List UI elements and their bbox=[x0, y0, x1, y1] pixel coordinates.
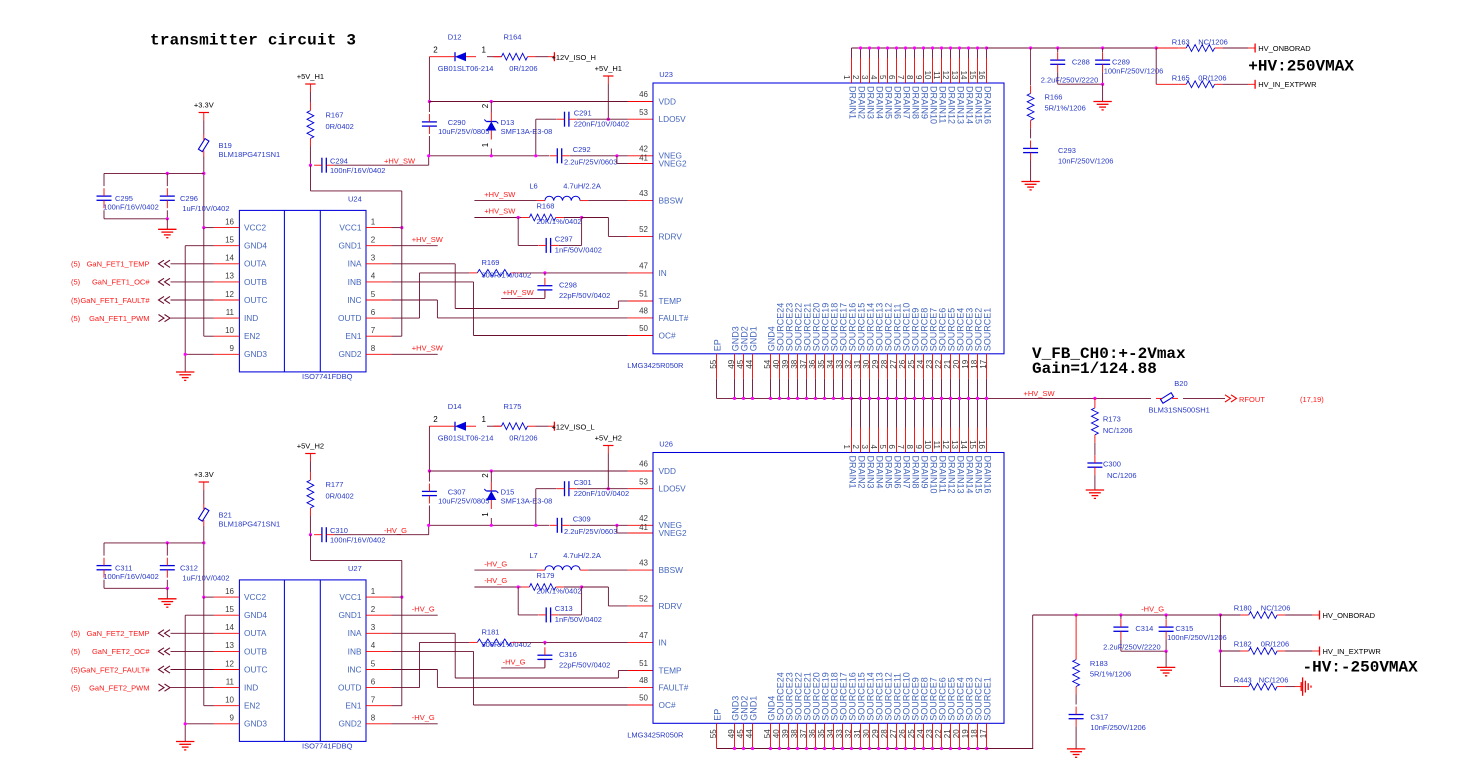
svg-text:0R/1206: 0R/1206 bbox=[509, 434, 537, 443]
svg-text:ISO7741FDBQ: ISO7741FDBQ bbox=[302, 742, 353, 751]
svg-text:SOURCE1: SOURCE1 bbox=[983, 308, 993, 352]
svg-text:2: 2 bbox=[433, 45, 438, 54]
svg-text:C293: C293 bbox=[1058, 146, 1076, 155]
svg-text:15: 15 bbox=[225, 605, 234, 614]
svg-text:5: 5 bbox=[371, 290, 376, 299]
svg-text:R166: R166 bbox=[1045, 93, 1063, 102]
svg-text:0R/1206: 0R/1206 bbox=[1198, 74, 1226, 83]
svg-text:DRAIN11: DRAIN11 bbox=[938, 86, 948, 123]
svg-text:100nF/16V/0402: 100nF/16V/0402 bbox=[330, 535, 385, 544]
svg-text:IN: IN bbox=[659, 637, 667, 647]
svg-text:DRAIN2: DRAIN2 bbox=[857, 456, 867, 489]
svg-text:C288: C288 bbox=[1072, 58, 1090, 67]
svg-text:+HV_SW: +HV_SW bbox=[412, 344, 444, 353]
svg-text:12: 12 bbox=[225, 290, 234, 299]
svg-text:R182: R182 bbox=[1234, 640, 1252, 649]
svg-text:VCC1: VCC1 bbox=[339, 223, 362, 233]
svg-text:5: 5 bbox=[878, 445, 887, 450]
svg-text:C298: C298 bbox=[559, 280, 577, 289]
svg-text:1: 1 bbox=[842, 445, 851, 450]
svg-text:GaN_FET2_TEMP: GaN_FET2_TEMP bbox=[87, 629, 150, 638]
svg-text:DRAIN5: DRAIN5 bbox=[884, 456, 894, 489]
svg-text:VNEG2: VNEG2 bbox=[659, 528, 688, 538]
svg-text:46: 46 bbox=[639, 90, 648, 99]
svg-text:GaN_FET2_FAULT#: GaN_FET2_FAULT# bbox=[80, 665, 150, 674]
svg-text:C292: C292 bbox=[573, 145, 591, 154]
svg-text:1: 1 bbox=[481, 512, 490, 517]
svg-text:+5V_H2: +5V_H2 bbox=[595, 434, 622, 443]
svg-text:DRAIN9: DRAIN9 bbox=[920, 456, 930, 489]
svg-text:42: 42 bbox=[639, 514, 648, 523]
svg-text:EN2: EN2 bbox=[244, 331, 261, 341]
svg-text:R167: R167 bbox=[326, 111, 344, 120]
svg-text:VCC2: VCC2 bbox=[244, 223, 267, 233]
svg-text:D14: D14 bbox=[448, 402, 462, 411]
svg-text:0R/0402: 0R/0402 bbox=[326, 122, 354, 131]
svg-text:50: 50 bbox=[639, 324, 648, 333]
svg-text:GaN_FET2_OC#: GaN_FET2_OC# bbox=[92, 647, 150, 656]
svg-text:D13: D13 bbox=[501, 118, 515, 127]
svg-text:1: 1 bbox=[371, 587, 376, 596]
svg-text:VDD: VDD bbox=[659, 96, 677, 106]
svg-text:7: 7 bbox=[896, 75, 905, 80]
svg-text:DRAIN12: DRAIN12 bbox=[947, 456, 957, 494]
svg-text:GND2: GND2 bbox=[338, 719, 361, 729]
svg-text:GND2: GND2 bbox=[338, 349, 361, 359]
svg-text:C300: C300 bbox=[1103, 460, 1121, 469]
svg-text:16: 16 bbox=[225, 217, 234, 226]
svg-text:14: 14 bbox=[225, 254, 234, 263]
svg-text:+HV_SW: +HV_SW bbox=[503, 288, 535, 297]
svg-text:GB01SLT06-214: GB01SLT06-214 bbox=[438, 64, 494, 73]
svg-text:BBSW: BBSW bbox=[659, 196, 684, 206]
svg-text:DRAIN1: DRAIN1 bbox=[848, 456, 858, 489]
svg-text:12: 12 bbox=[941, 440, 950, 449]
svg-text:10uF/25V/0805: 10uF/25V/0805 bbox=[438, 496, 489, 505]
svg-text:4: 4 bbox=[869, 75, 878, 80]
svg-text:DRAIN10: DRAIN10 bbox=[929, 86, 939, 124]
svg-text:R165: R165 bbox=[1172, 74, 1190, 83]
svg-text:7: 7 bbox=[371, 696, 376, 705]
svg-text:100nF/250V/1206: 100nF/250V/1206 bbox=[1104, 67, 1164, 76]
svg-text:R183: R183 bbox=[1090, 659, 1108, 668]
svg-text:DRAIN13: DRAIN13 bbox=[956, 456, 966, 494]
svg-text:2: 2 bbox=[481, 103, 490, 108]
svg-text:100nF/16V/0402: 100nF/16V/0402 bbox=[103, 203, 158, 212]
svg-text:GaN_FET1_OC#: GaN_FET1_OC# bbox=[92, 278, 150, 287]
svg-text:10nF/250V/1206: 10nF/250V/1206 bbox=[1058, 157, 1113, 166]
svg-text:C290: C290 bbox=[448, 118, 466, 127]
svg-text:9: 9 bbox=[914, 75, 923, 80]
svg-text:(5): (5) bbox=[71, 683, 81, 692]
svg-text:2: 2 bbox=[851, 75, 860, 80]
svg-text:C289: C289 bbox=[1112, 58, 1130, 67]
svg-text:16: 16 bbox=[977, 71, 986, 80]
svg-text:(5): (5) bbox=[71, 629, 81, 638]
svg-text:EN1: EN1 bbox=[345, 701, 362, 711]
svg-text:10: 10 bbox=[225, 696, 234, 705]
svg-text:INB: INB bbox=[348, 646, 362, 656]
svg-text:13: 13 bbox=[225, 641, 234, 650]
svg-text:BBSW: BBSW bbox=[659, 565, 684, 575]
svg-text:GaN_FET1_TEMP: GaN_FET1_TEMP bbox=[87, 260, 150, 269]
svg-text:2.2uF/250V/2220: 2.2uF/250V/2220 bbox=[1103, 642, 1161, 651]
svg-text:SMF13A-E3-08: SMF13A-E3-08 bbox=[501, 496, 553, 505]
svg-text:12: 12 bbox=[225, 659, 234, 668]
svg-text:+HV_SW: +HV_SW bbox=[484, 207, 516, 216]
svg-text:GND1: GND1 bbox=[749, 326, 759, 351]
svg-text:RDRV: RDRV bbox=[659, 231, 683, 241]
svg-text:11: 11 bbox=[226, 677, 235, 686]
svg-text:OUTC: OUTC bbox=[244, 295, 268, 305]
svg-text:EN1: EN1 bbox=[345, 331, 362, 341]
svg-text:DRAIN16: DRAIN16 bbox=[983, 456, 993, 494]
svg-text:INC: INC bbox=[347, 295, 361, 305]
svg-text:1: 1 bbox=[371, 217, 376, 226]
svg-text:GND1: GND1 bbox=[338, 610, 361, 620]
svg-text:C301: C301 bbox=[574, 478, 592, 487]
svg-text:NC/1206: NC/1206 bbox=[1261, 604, 1291, 613]
svg-text:EP: EP bbox=[713, 709, 723, 721]
svg-text:47: 47 bbox=[639, 631, 648, 640]
svg-text:1uF/10V/0402: 1uF/10V/0402 bbox=[182, 574, 229, 583]
svg-text:41: 41 bbox=[639, 523, 648, 532]
svg-text:DRAIN8: DRAIN8 bbox=[911, 86, 921, 119]
svg-text:+HV_SW: +HV_SW bbox=[484, 190, 516, 199]
svg-text:3: 3 bbox=[860, 75, 869, 80]
svg-text:VCC1: VCC1 bbox=[339, 592, 362, 602]
svg-text:L7: L7 bbox=[529, 551, 537, 560]
svg-text:1nF/50V/0402: 1nF/50V/0402 bbox=[555, 615, 602, 624]
svg-text:C309: C309 bbox=[573, 514, 591, 523]
svg-text:100nF/250V/1206: 100nF/250V/1206 bbox=[1167, 633, 1227, 642]
svg-text:2.2uF/250V/2220: 2.2uF/250V/2220 bbox=[1041, 76, 1099, 85]
svg-text:B21: B21 bbox=[219, 510, 232, 519]
svg-text:C307: C307 bbox=[448, 488, 466, 497]
svg-text:6: 6 bbox=[887, 445, 896, 450]
svg-text:0R/1206: 0R/1206 bbox=[1261, 640, 1289, 649]
svg-text:NC/1206: NC/1206 bbox=[1259, 675, 1289, 684]
svg-text:1nF/50V/0402: 1nF/50V/0402 bbox=[555, 245, 602, 254]
svg-text:DRAIN15: DRAIN15 bbox=[974, 456, 984, 494]
svg-text:C312: C312 bbox=[180, 564, 198, 573]
svg-text:GaN_FET2_PWM: GaN_FET2_PWM bbox=[89, 683, 149, 692]
svg-text:transmitter circuit 3: transmitter circuit 3 bbox=[150, 32, 356, 50]
svg-text:+12V_ISO_L: +12V_ISO_L bbox=[552, 422, 595, 431]
svg-text:OUTA: OUTA bbox=[244, 259, 267, 269]
svg-text:3: 3 bbox=[371, 254, 376, 263]
svg-text:13: 13 bbox=[225, 272, 234, 281]
svg-text:NC/1206: NC/1206 bbox=[1198, 38, 1228, 47]
svg-text:10: 10 bbox=[225, 326, 234, 335]
svg-text:43: 43 bbox=[639, 189, 648, 198]
svg-text:-HV_G: -HV_G bbox=[1141, 605, 1164, 614]
svg-text:-HV_G: -HV_G bbox=[412, 713, 435, 722]
svg-text:GND3: GND3 bbox=[244, 719, 267, 729]
svg-text:OC#: OC# bbox=[659, 330, 676, 340]
svg-text:FAULT#: FAULT# bbox=[659, 313, 689, 323]
svg-text:8: 8 bbox=[371, 714, 376, 723]
svg-text:13: 13 bbox=[950, 71, 959, 80]
svg-text:R181: R181 bbox=[482, 627, 500, 636]
svg-text:10: 10 bbox=[923, 71, 932, 80]
svg-text:6: 6 bbox=[371, 677, 376, 686]
svg-text:OUTA: OUTA bbox=[244, 628, 267, 638]
svg-text:+3.3V: +3.3V bbox=[194, 101, 214, 110]
svg-text:C294: C294 bbox=[330, 156, 348, 165]
svg-text:9: 9 bbox=[230, 344, 235, 353]
svg-text:+5V_H1: +5V_H1 bbox=[595, 64, 622, 73]
svg-text:LMG3425R050R: LMG3425R050R bbox=[627, 731, 684, 740]
svg-text:DRAIN2: DRAIN2 bbox=[857, 86, 867, 119]
svg-text:5: 5 bbox=[878, 75, 887, 80]
svg-text:-HV_G: -HV_G bbox=[484, 559, 507, 568]
svg-text:7: 7 bbox=[371, 326, 376, 335]
svg-text:R164: R164 bbox=[504, 32, 522, 41]
svg-text:-HV_G: -HV_G bbox=[503, 658, 526, 667]
svg-text:-HV_G: -HV_G bbox=[412, 604, 435, 613]
svg-text:1uF/10V/0402: 1uF/10V/0402 bbox=[182, 204, 229, 213]
svg-text:L6: L6 bbox=[529, 182, 537, 191]
svg-text:16: 16 bbox=[977, 440, 986, 449]
svg-text:D15: D15 bbox=[501, 488, 515, 497]
svg-text:8: 8 bbox=[371, 344, 376, 353]
svg-text:R443: R443 bbox=[1234, 675, 1252, 684]
svg-text:(5): (5) bbox=[71, 647, 81, 656]
svg-text:1: 1 bbox=[482, 45, 487, 54]
svg-text:OUTB: OUTB bbox=[244, 277, 268, 287]
svg-text:EN2: EN2 bbox=[244, 701, 261, 711]
svg-text:R180: R180 bbox=[1234, 604, 1252, 613]
svg-text:GaN_FET1_PWM: GaN_FET1_PWM bbox=[89, 314, 149, 323]
svg-text:DRAIN15: DRAIN15 bbox=[974, 86, 984, 124]
svg-text:53: 53 bbox=[639, 108, 648, 117]
svg-text:DRAIN6: DRAIN6 bbox=[893, 86, 903, 119]
svg-text:11: 11 bbox=[932, 71, 941, 80]
svg-text:ISO7741FDBQ: ISO7741FDBQ bbox=[302, 372, 353, 381]
svg-text:42: 42 bbox=[639, 144, 648, 153]
svg-text:6: 6 bbox=[371, 308, 376, 317]
svg-text:(5): (5) bbox=[71, 665, 81, 674]
svg-text:BLM18PG471SN1: BLM18PG471SN1 bbox=[219, 150, 281, 159]
svg-text:OUTB: OUTB bbox=[244, 646, 268, 656]
svg-text:GND3: GND3 bbox=[244, 349, 267, 359]
svg-text:C317: C317 bbox=[1090, 712, 1108, 721]
svg-text:+HV_SW: +HV_SW bbox=[1024, 389, 1056, 398]
svg-text:DRAIN9: DRAIN9 bbox=[920, 86, 930, 119]
svg-text:R179: R179 bbox=[537, 571, 555, 580]
svg-text:52: 52 bbox=[639, 595, 648, 604]
svg-text:9: 9 bbox=[230, 714, 235, 723]
svg-text:TEMP: TEMP bbox=[659, 296, 683, 306]
svg-text:0R/1206: 0R/1206 bbox=[509, 64, 537, 73]
svg-text:R175: R175 bbox=[504, 402, 522, 411]
svg-text:10uF/25V/0805: 10uF/25V/0805 bbox=[438, 127, 489, 136]
svg-text:DRAIN7: DRAIN7 bbox=[902, 456, 912, 489]
svg-text:OUTD: OUTD bbox=[338, 683, 362, 693]
svg-text:+5V_H1: +5V_H1 bbox=[297, 72, 324, 81]
svg-text:9: 9 bbox=[914, 445, 923, 450]
svg-text:8: 8 bbox=[905, 75, 914, 80]
svg-text:300R/1%/0402: 300R/1%/0402 bbox=[482, 271, 532, 280]
svg-text:1: 1 bbox=[842, 75, 851, 80]
svg-text:NC/1206: NC/1206 bbox=[1103, 426, 1133, 435]
svg-text:15: 15 bbox=[968, 71, 977, 80]
svg-text:EP: EP bbox=[713, 339, 723, 351]
svg-text:48: 48 bbox=[639, 307, 648, 316]
svg-text:2: 2 bbox=[433, 415, 438, 424]
svg-text:11: 11 bbox=[932, 441, 941, 450]
svg-text:SMF13A-E3-08: SMF13A-E3-08 bbox=[501, 127, 553, 136]
svg-text:HV_ONBORAD: HV_ONBORAD bbox=[1323, 611, 1376, 620]
svg-text:+HV:250VMAX: +HV:250VMAX bbox=[1248, 57, 1354, 75]
svg-text:DRAIN14: DRAIN14 bbox=[965, 86, 975, 124]
svg-text:DRAIN3: DRAIN3 bbox=[866, 456, 876, 489]
svg-text:(5): (5) bbox=[71, 296, 81, 305]
svg-text:(5): (5) bbox=[71, 278, 81, 287]
svg-text:4.7uH/2.2A: 4.7uH/2.2A bbox=[563, 182, 601, 191]
svg-text:14: 14 bbox=[959, 71, 968, 80]
svg-text:C291: C291 bbox=[574, 108, 592, 117]
svg-text:IND: IND bbox=[244, 683, 258, 693]
svg-text:C315: C315 bbox=[1175, 624, 1193, 633]
svg-text:4: 4 bbox=[371, 641, 376, 650]
svg-text:GND1: GND1 bbox=[749, 696, 759, 721]
svg-text:0R/0402: 0R/0402 bbox=[326, 492, 354, 501]
svg-text:INB: INB bbox=[348, 277, 362, 287]
svg-text:+HV_SW: +HV_SW bbox=[412, 235, 444, 244]
svg-text:BLM31SN500SH1: BLM31SN500SH1 bbox=[1149, 406, 1210, 415]
svg-text:10: 10 bbox=[923, 440, 932, 449]
svg-text:+12V_ISO_H: +12V_ISO_H bbox=[552, 53, 596, 62]
svg-text:14: 14 bbox=[225, 623, 234, 632]
svg-text:HV_IN_EXTPWR: HV_IN_EXTPWR bbox=[1258, 80, 1317, 89]
svg-text:47: 47 bbox=[639, 262, 648, 271]
svg-text:GB01SLT06-214: GB01SLT06-214 bbox=[438, 434, 494, 443]
svg-text:15: 15 bbox=[968, 440, 977, 449]
svg-text:(17,19): (17,19) bbox=[1300, 395, 1324, 404]
svg-text:OC#: OC# bbox=[659, 700, 676, 710]
svg-text:13: 13 bbox=[950, 440, 959, 449]
svg-text:Gain=1/124.88: Gain=1/124.88 bbox=[1032, 360, 1157, 378]
svg-text:41: 41 bbox=[639, 153, 648, 162]
svg-text:22pF/50V/0402: 22pF/50V/0402 bbox=[559, 660, 610, 669]
svg-text:GaN_FET1_FAULT#: GaN_FET1_FAULT# bbox=[80, 296, 150, 305]
svg-text:TEMP: TEMP bbox=[659, 665, 683, 675]
svg-text:+HV_SW: +HV_SW bbox=[384, 156, 416, 165]
svg-text:C310: C310 bbox=[330, 526, 348, 535]
svg-text:INA: INA bbox=[348, 628, 362, 638]
svg-text:51: 51 bbox=[639, 290, 648, 299]
svg-text:7: 7 bbox=[896, 445, 905, 450]
svg-text:INC: INC bbox=[347, 664, 361, 674]
svg-text:U23: U23 bbox=[659, 70, 673, 79]
svg-text:DRAIN4: DRAIN4 bbox=[875, 456, 885, 489]
svg-text:DRAIN12: DRAIN12 bbox=[947, 86, 957, 124]
svg-text:16: 16 bbox=[225, 587, 234, 596]
svg-text:220nF/10V/0402: 220nF/10V/0402 bbox=[574, 489, 629, 498]
svg-text:5R/1%/1206: 5R/1%/1206 bbox=[1090, 670, 1131, 679]
svg-text:GND4: GND4 bbox=[244, 241, 267, 251]
svg-text:52: 52 bbox=[639, 225, 648, 234]
svg-text:2.2uF/25V/0603: 2.2uF/25V/0603 bbox=[564, 527, 617, 536]
svg-text:U27: U27 bbox=[348, 564, 362, 573]
svg-text:-HV_G: -HV_G bbox=[484, 576, 507, 585]
svg-text:+3.3V: +3.3V bbox=[194, 470, 214, 479]
svg-text:GND1: GND1 bbox=[338, 241, 361, 251]
svg-text:B20: B20 bbox=[1174, 379, 1187, 388]
svg-text:3: 3 bbox=[860, 445, 869, 450]
svg-text:DRAIN14: DRAIN14 bbox=[965, 456, 975, 494]
svg-text:R177: R177 bbox=[326, 480, 344, 489]
svg-text:-HV:-250VMAX: -HV:-250VMAX bbox=[1303, 659, 1419, 677]
svg-text:DRAIN11: DRAIN11 bbox=[938, 456, 948, 493]
svg-text:R173: R173 bbox=[1103, 415, 1121, 424]
svg-text:1: 1 bbox=[482, 415, 487, 424]
svg-text:U26: U26 bbox=[659, 440, 673, 449]
svg-text:D12: D12 bbox=[448, 32, 462, 41]
svg-text:VCC2: VCC2 bbox=[244, 592, 267, 602]
svg-text:FAULT#: FAULT# bbox=[659, 682, 689, 692]
svg-text:43: 43 bbox=[639, 559, 648, 568]
svg-text:100nF/16V/0402: 100nF/16V/0402 bbox=[330, 166, 385, 175]
svg-text:48: 48 bbox=[639, 676, 648, 685]
svg-text:HV_IN_EXTPWR: HV_IN_EXTPWR bbox=[1323, 647, 1382, 656]
svg-text:46: 46 bbox=[639, 460, 648, 469]
svg-text:11: 11 bbox=[226, 308, 235, 317]
svg-text:4: 4 bbox=[869, 445, 878, 450]
svg-text:15: 15 bbox=[225, 236, 234, 245]
svg-text:20K/1%/0402: 20K/1%/0402 bbox=[537, 217, 582, 226]
svg-text:2: 2 bbox=[371, 605, 376, 614]
svg-text:(5): (5) bbox=[71, 314, 81, 323]
svg-text:INA: INA bbox=[348, 259, 362, 269]
svg-text:22pF/50V/0402: 22pF/50V/0402 bbox=[559, 291, 610, 300]
svg-text:2: 2 bbox=[481, 473, 490, 478]
svg-text:51: 51 bbox=[639, 659, 648, 668]
svg-text:NC/1206: NC/1206 bbox=[1107, 471, 1137, 480]
svg-text:SOURCE1: SOURCE1 bbox=[983, 677, 993, 721]
svg-text:OUTD: OUTD bbox=[338, 313, 362, 323]
svg-text:DRAIN13: DRAIN13 bbox=[956, 86, 966, 124]
svg-text:8: 8 bbox=[905, 445, 914, 450]
svg-text:U24: U24 bbox=[348, 195, 362, 204]
svg-text:HV_ONBORAD: HV_ONBORAD bbox=[1258, 44, 1311, 53]
svg-text:12: 12 bbox=[941, 71, 950, 80]
svg-text:DRAIN7: DRAIN7 bbox=[902, 86, 912, 119]
svg-text:DRAIN3: DRAIN3 bbox=[866, 86, 876, 119]
svg-text:20K/1%/0402: 20K/1%/0402 bbox=[537, 586, 582, 595]
svg-text:14: 14 bbox=[959, 440, 968, 449]
svg-text:IN: IN bbox=[659, 268, 667, 278]
svg-text:1: 1 bbox=[481, 142, 490, 147]
svg-text:5: 5 bbox=[371, 659, 376, 668]
svg-text:R169: R169 bbox=[482, 258, 500, 267]
svg-text:10nF/250V/1206: 10nF/250V/1206 bbox=[1090, 723, 1145, 732]
svg-text:B19: B19 bbox=[219, 141, 232, 150]
svg-text:3: 3 bbox=[371, 623, 376, 632]
svg-text:C297: C297 bbox=[555, 235, 573, 244]
svg-text:RFOUT: RFOUT bbox=[1239, 395, 1265, 404]
svg-text:VDD: VDD bbox=[659, 466, 677, 476]
svg-text:LMG3425R050R: LMG3425R050R bbox=[627, 361, 684, 370]
svg-text:LDO5V: LDO5V bbox=[659, 114, 687, 124]
svg-text:IND: IND bbox=[244, 313, 258, 323]
svg-text:C296: C296 bbox=[180, 194, 198, 203]
svg-text:OUTC: OUTC bbox=[244, 664, 268, 674]
svg-text:300R/1%/0402: 300R/1%/0402 bbox=[482, 640, 532, 649]
svg-text:GND4: GND4 bbox=[244, 610, 267, 620]
